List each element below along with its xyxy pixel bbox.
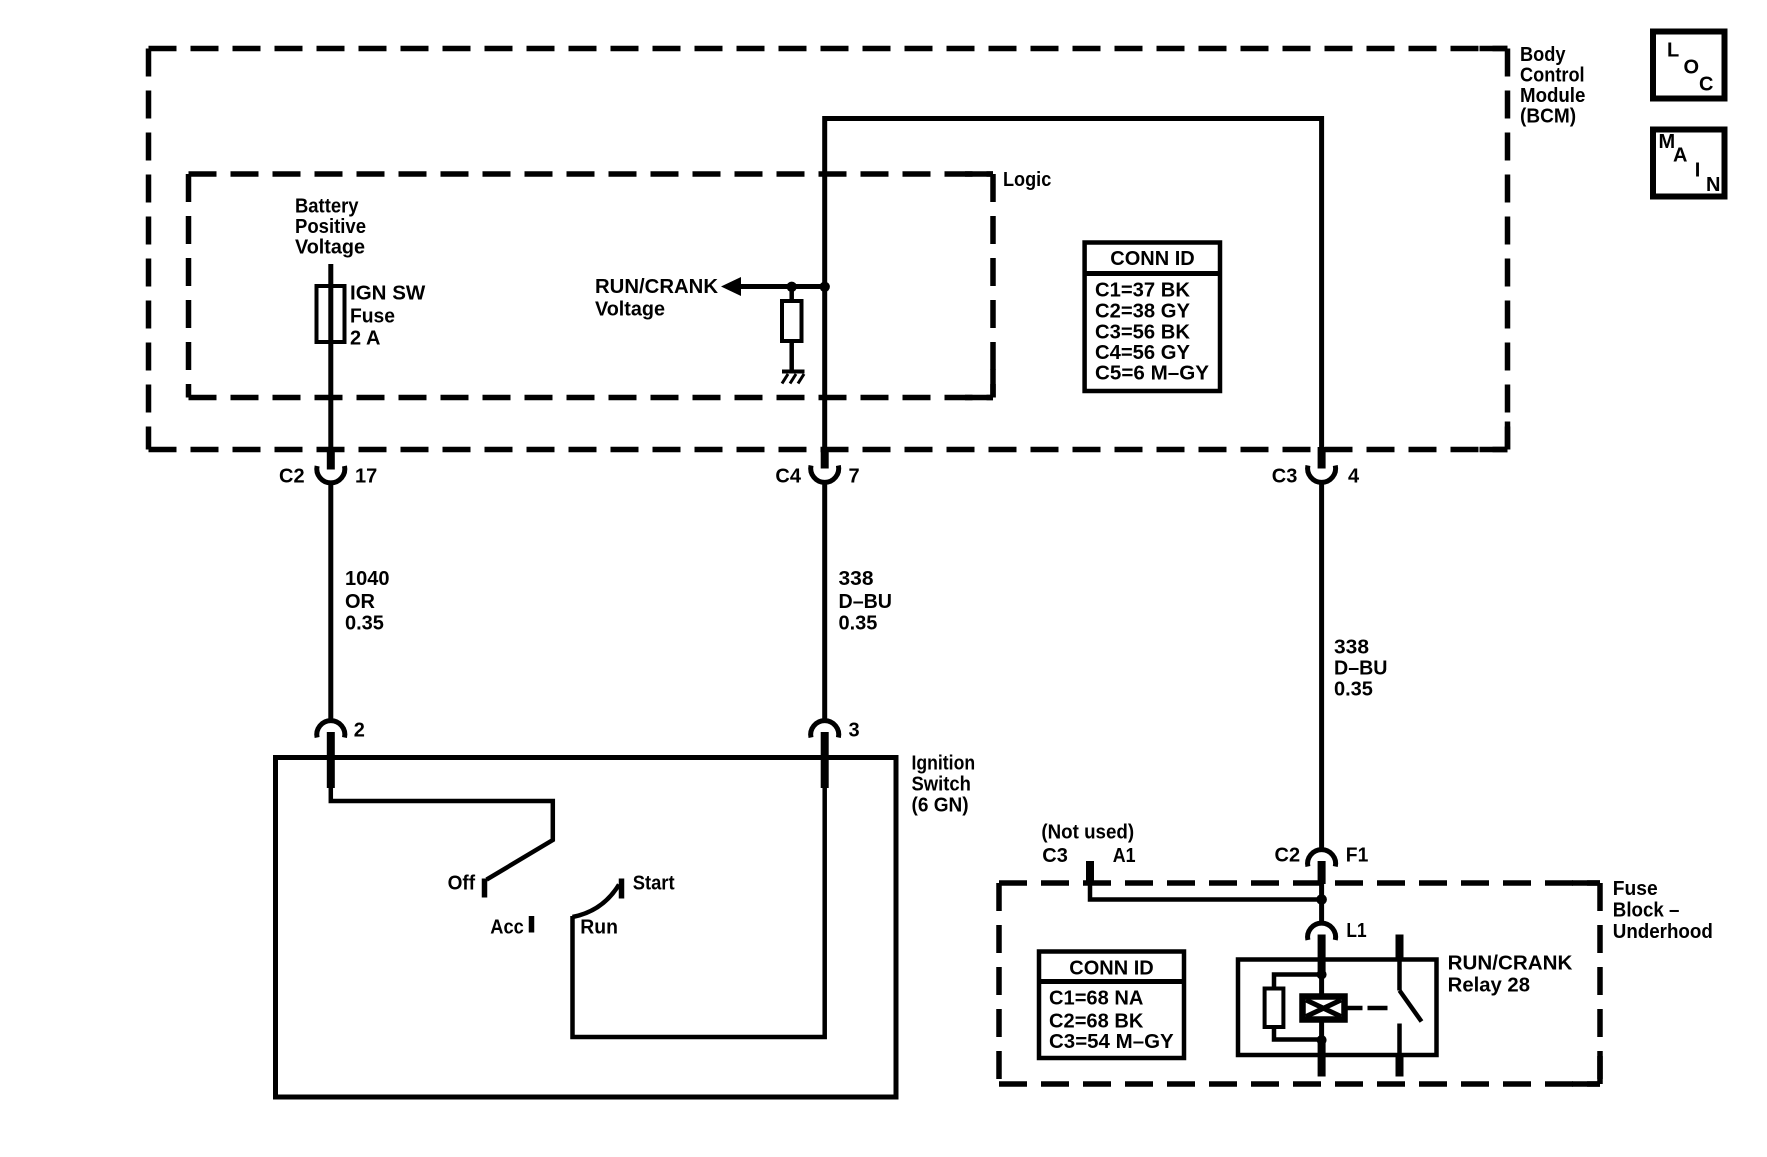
svg-text:Acc: Acc [490,917,524,939]
relay coil to switch dashed link [1345,1006,1388,1011]
svg-text:IGN SW: IGN SW [350,283,425,305]
label Battery Positive Voltage [295,196,366,259]
wire 1040 OR [328,483,333,721]
svg-text:2 A: 2 A [350,328,380,350]
svg-text:0.35: 0.35 [839,613,878,635]
svg-text:Start: Start [633,873,675,895]
relay coil [1303,975,1345,1041]
CONN ID table BCM [1085,243,1220,392]
contact Acc tick [529,916,535,933]
LOC reference box [1653,32,1725,99]
svg-text:Logic: Logic [1003,169,1051,191]
svg-text:RUN/CRANK: RUN/CRANK [595,276,719,298]
Logic dashed box [189,174,994,398]
fuse block underhood dashed box [999,883,1600,1084]
svg-text:CONN ID: CONN ID [1069,958,1153,980]
wire F1 to junction [1319,884,1324,923]
node relay coil top junction [1317,970,1327,980]
svg-text:(Not used): (Not used) [1041,822,1134,844]
wire Run contact to pin 3 [573,768,825,1037]
svg-text:Module: Module [1520,85,1585,107]
svg-text:0.35: 0.35 [345,613,384,635]
contact Off tick [482,879,488,898]
switch blade curve Run to Start [573,885,620,918]
svg-text:C1=68 NA: C1=68 NA [1049,988,1143,1010]
svg-text:D–BU: D–BU [839,591,893,613]
connector L1 [1308,920,1367,975]
svg-text:A: A [1673,145,1687,167]
svg-text:C2: C2 [1275,845,1301,867]
svg-text:D–BU: D–BU [1334,658,1388,680]
connector C3 pin 4 [1272,447,1360,488]
svg-text:L: L [1667,40,1679,62]
svg-text:O: O [1684,57,1700,79]
svg-text:338: 338 [1334,637,1369,659]
svg-text:CONN ID: CONN ID [1110,248,1194,270]
ignition switch box [276,758,897,1098]
svg-text:7: 7 [849,466,860,488]
contact Start tick [619,879,625,899]
svg-text:C3: C3 [1272,466,1298,488]
svg-text:C: C [1699,74,1713,96]
svg-text:Off: Off [448,873,476,895]
svg-text:F1: F1 [1346,845,1369,867]
svg-text:C4=56 GY: C4=56 GY [1095,342,1191,364]
svg-text:C3: C3 [1042,845,1068,867]
svg-text:338: 338 [839,568,874,590]
svg-text:L1: L1 [1346,920,1366,942]
relay switch [1396,935,1422,1077]
label Fuse Block Underhood [1613,878,1713,943]
svg-text:N: N [1706,174,1720,196]
svg-text:3: 3 [849,720,860,742]
ground chassis [782,372,805,384]
svg-text:2: 2 [354,720,365,742]
svg-text:(6 GN): (6 GN) [912,795,969,817]
svg-text:Switch: Switch [912,774,971,796]
svg-text:Fuse: Fuse [350,306,395,328]
connector pin 2 ignition switch [317,720,365,789]
node junction dot fuse block [1316,894,1327,905]
relay coil parallel resistor [1265,975,1322,1040]
svg-text:17: 17 [355,466,377,488]
label Body Control Module (BCM) [1520,44,1585,128]
svg-text:Positive: Positive [295,216,366,238]
label Logic [1003,169,1051,191]
svg-text:Underhood: Underhood [1613,921,1713,943]
svg-text:Battery: Battery [295,196,359,218]
svg-text:I: I [1695,160,1701,182]
label RUN/CRANK Relay 28 [1448,953,1573,997]
svg-text:Block –: Block – [1613,900,1680,922]
label RUN/CRANK Voltage [595,276,719,321]
svg-text:C3=54 M–GY: C3=54 M–GY [1049,1031,1174,1053]
wire 338 D-BU middle [822,483,827,721]
svg-text:RUN/CRANK: RUN/CRANK [1448,953,1573,975]
svg-text:Body: Body [1520,44,1566,66]
svg-text:C2=68 BK: C2=68 BK [1049,1011,1144,1033]
node junction dot left [787,282,797,292]
svg-text:Fuse: Fuse [1613,878,1658,900]
svg-text:A1: A1 [1113,845,1136,867]
svg-text:C2: C2 [279,466,305,488]
MAIN reference box [1653,130,1725,197]
svg-text:C2=38 GY: C2=38 GY [1095,301,1191,323]
label Ignition Switch (6 GN) [912,753,976,817]
relay box RUN/CRANK Relay 28 [1238,960,1437,1056]
fuse IGN SW Fuse 2A [317,286,345,342]
svg-text:Run: Run [580,917,618,939]
relay coil bottom pin stub [1318,1040,1326,1077]
BCM module dashed box [149,49,1508,450]
svg-text:C5=6 M–GY: C5=6 M–GY [1095,363,1210,385]
svg-text:Voltage: Voltage [295,237,365,259]
label IGN SW Fuse 2 A [350,283,425,350]
CONN ID table fuse block [1039,952,1184,1059]
node junction dot right [820,282,830,292]
svg-text:0.35: 0.35 [1334,679,1373,701]
svg-text:4: 4 [1348,466,1360,488]
connector C2 pin 17 [279,447,377,488]
svg-text:Voltage: Voltage [595,299,665,321]
connector C4 pin 7 [775,447,859,488]
svg-text:C4: C4 [775,466,801,488]
svg-text:OR: OR [345,591,376,613]
svg-text:C3=56 BK: C3=56 BK [1095,322,1191,344]
connector pin 3 ignition switch [811,720,860,789]
wire 338 D-BU right [1319,483,1324,850]
node relay coil bottom junction [1317,1035,1327,1045]
connector A1 stub [1086,861,1322,900]
wire battery feed vertical [328,264,333,450]
svg-text:Ignition: Ignition [912,753,976,775]
svg-text:Relay 28: Relay 28 [1448,975,1530,997]
wire pin2 to Off contact [331,768,553,880]
svg-text:(BCM): (BCM) [1520,106,1576,128]
connector C2 F1 [1275,845,1369,885]
svg-text:C1=37 BK: C1=37 BK [1095,280,1191,302]
svg-text:1040: 1040 [345,568,390,590]
arrow RUN/CRANK voltage [721,277,825,296]
resistor internal BCM [782,287,802,371]
svg-text:Control: Control [1520,65,1585,87]
wire top horizontal run [825,119,1322,450]
